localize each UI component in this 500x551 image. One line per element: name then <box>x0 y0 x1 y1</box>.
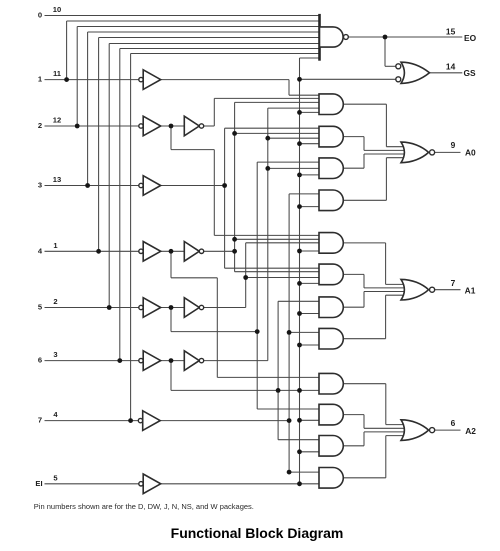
wire 6L into AND A0-3 <box>268 167 321 169</box>
wire A2-2 jog <box>363 415 365 429</box>
svg-text:GS: GS <box>463 68 476 78</box>
wire EI enable into AND A1-3 <box>300 313 321 315</box>
wire EI enable into AND A1-2 <box>300 282 321 284</box>
nor-gate U-A1 body <box>401 279 429 300</box>
wire 3H into AND A0-2 <box>225 127 321 129</box>
svg-text:Functional Block Diagram: Functional Block Diagram <box>171 525 344 541</box>
wire 5L into AND A1-1 <box>246 242 321 244</box>
wire row 6 interstage <box>161 360 184 362</box>
wire 6H into AND A1-3 <box>278 300 320 302</box>
and-gate A2-1 <box>319 373 343 394</box>
node junction EI lane to AND A1-4 <box>297 343 302 348</box>
and-gate A1-1 <box>319 233 343 254</box>
wire A1-3 output run <box>344 306 364 308</box>
node junction EI lane to AND A0-3 <box>297 173 302 178</box>
wire A0-4 output run <box>344 199 387 201</box>
wire input 1 top run to NAND <box>67 20 320 22</box>
nand-gate U-EO input bar <box>318 14 321 61</box>
wire 7H into AND A1-4 <box>289 331 320 333</box>
svg-text:14: 14 <box>446 61 456 71</box>
inverter U6b <box>184 351 199 371</box>
svg-text:7: 7 <box>451 278 456 288</box>
inverter U4b output bubble <box>199 249 203 253</box>
wire EO branch into GS gate <box>385 65 396 67</box>
wire EI enable into AND A0-4 <box>300 206 321 208</box>
wire input 1 riser to NAND <box>66 21 68 80</box>
node junction 6L to A0-3 <box>265 166 270 171</box>
wire EO branch drop to GS <box>384 37 386 66</box>
svg-text:2: 2 <box>38 121 42 130</box>
wire A2-1 output run <box>344 383 386 385</box>
wire input 5 top run to NAND <box>109 43 319 45</box>
node junction input 5 riser <box>107 305 112 310</box>
svg-text:EO: EO <box>464 33 477 43</box>
wire EI enable into GS gate <box>300 78 396 80</box>
wire 4H lane drop <box>216 278 218 378</box>
svg-text:EI: EI <box>35 479 42 488</box>
node junction EI lane to AND A1-3 <box>297 311 302 316</box>
wire A2-3 jog <box>363 432 365 446</box>
wire 7H into AND A0-4 <box>289 193 320 195</box>
wire 5H into AND A0-3 <box>257 161 320 163</box>
and-gate A1-2 <box>319 264 343 285</box>
node junction EI lane to AND A1-1 <box>297 249 302 254</box>
wire input 6 line <box>45 360 139 362</box>
buffer U1a input bubble <box>139 77 143 81</box>
wire EI-enable line into NAND pin 9 <box>300 57 320 59</box>
buffer U3a input bubble <box>139 183 143 187</box>
node junction EI lane base <box>297 481 302 486</box>
node junction EO branch <box>383 35 388 40</box>
wire 5L into AND A1-2 <box>246 277 321 279</box>
buffer U3a <box>143 176 161 196</box>
node junction 4L to A1-1 <box>232 237 237 242</box>
wire row 4 interstage <box>161 250 184 252</box>
and-gate A1-3 <box>319 297 343 318</box>
buffer U7a <box>143 411 161 431</box>
wire A2-4 jog <box>385 436 387 478</box>
buffer UEIa input bubble <box>139 482 143 486</box>
wire 6H drop <box>170 361 172 391</box>
wire 2H drop <box>170 126 172 150</box>
svg-text:3: 3 <box>53 350 57 359</box>
wire input 7 line <box>45 420 139 422</box>
wire 5H drop <box>170 308 172 332</box>
svg-text:12: 12 <box>53 116 61 125</box>
wire 6L lane <box>267 108 269 361</box>
wire 3H lane <box>224 128 226 268</box>
node junction 7H to A1-4 <box>287 330 292 335</box>
wire 3H into AND A1-2 <box>225 267 321 269</box>
wire input 7 top run to NAND <box>131 53 320 55</box>
node junction EI lane to AND A1-2 <box>297 281 302 286</box>
node junction input 6 riser <box>117 358 122 363</box>
wire 2L output run <box>204 125 215 127</box>
svg-text:3: 3 <box>38 181 42 190</box>
wire A2-2 output run <box>344 414 364 416</box>
wire input 2 riser to NAND <box>76 27 78 127</box>
wire A0-3 jog <box>363 154 365 168</box>
wire A1-2 into NOR <box>364 287 406 289</box>
wire EI enable into AND A0-3 <box>300 174 321 176</box>
svg-text:Pin numbers shown are for the: Pin numbers shown are for the D, DW, J, … <box>34 502 254 511</box>
wire A2 output <box>435 429 461 431</box>
wire input 3 top run to NAND <box>88 31 320 33</box>
wire input 2 line <box>45 125 139 127</box>
node junction row 2 interstage tap <box>169 124 174 129</box>
node junction input 7 riser <box>128 418 133 423</box>
node junction row 5 interstage tap <box>169 305 174 310</box>
node junction 3H tee <box>222 183 227 188</box>
node junction 5H tee <box>255 329 260 334</box>
wire 1H into AND A0-1 <box>289 94 321 96</box>
nor-gate U-A2 output bubble <box>430 428 435 433</box>
wire A2-3 into NOR <box>364 431 406 433</box>
svg-text:15: 15 <box>446 26 456 36</box>
wire A0-1 output run <box>344 103 387 105</box>
buffer U6a input bubble <box>139 358 143 362</box>
wire input 0 line <box>45 15 320 17</box>
wire EI enable lane <box>299 58 301 484</box>
wire A0 output <box>435 151 461 153</box>
node junction 7H tee <box>287 418 292 423</box>
wire row 2 interstage <box>161 125 184 127</box>
wire A1-1 output run <box>344 242 386 244</box>
wire 6H jog into AND A2-1 <box>171 389 321 391</box>
wire EI enable into AND A1-4 <box>300 344 321 346</box>
wire 5L output run <box>204 307 246 309</box>
svg-text:11: 11 <box>53 69 62 78</box>
wire A0-1 jog <box>385 104 387 147</box>
inverter U4b <box>184 242 199 262</box>
svg-text:0: 0 <box>38 11 42 20</box>
wire 6L into AND A0-1 <box>268 107 321 109</box>
wire A0-4 into NOR <box>386 157 405 159</box>
wire A1-3 jog <box>363 292 365 308</box>
node junction 5L to A1-2 <box>243 275 248 280</box>
wire EI enable into AND A0-1 <box>300 111 321 113</box>
and-gate A0-3 <box>319 158 343 179</box>
nand-gate U-EO body <box>320 27 344 47</box>
or-gate U-GS input bubble bottom <box>396 77 401 82</box>
buffer U4a <box>143 242 161 262</box>
wire 4H jog <box>171 277 217 279</box>
inverter U5b <box>184 298 199 318</box>
svg-text:9: 9 <box>451 140 456 150</box>
node junction 6L to A0-2 <box>265 136 270 141</box>
node junction EI lane to AND A0-4 <box>297 204 302 209</box>
wire A0-4 jog <box>385 158 387 201</box>
node junction EI lane to AND A2-3 <box>297 449 302 454</box>
node junction input 2 riser <box>75 124 80 129</box>
wire input EI line <box>45 483 139 485</box>
inverter U5b output bubble <box>199 305 203 309</box>
inverter U6b output bubble <box>199 358 203 362</box>
or-gate U-GS input bubble top <box>396 64 401 69</box>
wire 4H drop <box>170 251 172 277</box>
wire 7H buffer output run <box>160 420 289 422</box>
inverter U2b output bubble <box>199 124 203 128</box>
wire input 1 line <box>45 79 139 81</box>
node junction input 4 riser <box>96 249 101 254</box>
node junction input 1 riser <box>64 77 69 82</box>
svg-text:6: 6 <box>451 418 456 428</box>
wire GS output <box>430 72 463 74</box>
wire 2L rise <box>213 98 215 126</box>
wire 6L into AND A0-2 <box>268 137 321 139</box>
nor-gate U-A2 body <box>401 420 429 441</box>
wire A0-2 jog <box>363 137 365 151</box>
and-gate A0-1 <box>319 94 343 115</box>
wire EI enable into AND A1-1 <box>300 250 321 252</box>
svg-text:13: 13 <box>53 175 61 184</box>
wire 5H into AND A2-2 <box>257 408 320 410</box>
wire input 3 riser to NAND <box>87 32 89 186</box>
and-gate A2-4 <box>319 468 343 489</box>
wire A0-2 output run <box>344 136 364 138</box>
wire A0-3 output run <box>344 167 364 169</box>
svg-text:A1: A1 <box>465 286 476 296</box>
wire input 5 line <box>45 307 139 309</box>
wire 4L into AND A0-2 <box>235 132 321 134</box>
wire A1-1 into NOR <box>386 283 406 285</box>
wire 1H buffer output run <box>161 79 289 81</box>
and-gate A0-4 <box>319 190 343 211</box>
wire A0-3 into NOR <box>364 153 406 155</box>
wire 2H into AND A1-1 <box>214 234 320 236</box>
wire A2-1 into NOR <box>386 424 406 426</box>
wire 1H drop <box>288 80 290 96</box>
svg-text:A2: A2 <box>465 426 476 436</box>
wire input 6 riser to NAND <box>119 49 121 361</box>
buffer U5a <box>143 298 161 318</box>
node junction 6H tee <box>276 388 281 393</box>
node junction EI lane to AND A2-1 <box>297 388 302 393</box>
wire 5L lane <box>245 243 247 308</box>
wire 4L output run <box>204 250 235 252</box>
wire A1-2 jog <box>363 274 365 288</box>
wire A1-1 jog <box>385 243 387 285</box>
node junction input 3 riser <box>85 183 90 188</box>
wire 4H into AND A2-1 <box>217 376 320 378</box>
wire 4L lane <box>234 102 236 271</box>
wire 4L into AND A1-1 <box>235 238 321 240</box>
wire EO output <box>348 36 462 38</box>
wire input 4 line <box>45 250 139 252</box>
and-gate A2-3 <box>319 436 343 457</box>
wire 4L into AND A0-1 <box>235 101 321 103</box>
wire input 7 riser to NAND <box>130 54 132 421</box>
wire input 4 riser to NAND <box>98 38 100 252</box>
wire A2-3 output run <box>344 445 364 447</box>
nor-gate U-A0 output bubble <box>430 150 435 155</box>
wire EI buffer output run into AND A2-4 <box>161 483 321 485</box>
wire A1-4 into NOR <box>386 294 406 296</box>
and-gate A0-2 <box>319 126 343 147</box>
wire 6H into AND A2-3 <box>278 439 320 441</box>
node junction EI lane to AND A0-2 <box>297 141 302 146</box>
svg-text:2: 2 <box>53 297 57 306</box>
buffer U2a <box>143 116 161 136</box>
buffer U7a input bubble <box>138 418 142 422</box>
node junction 7H to A2-4 <box>287 470 292 475</box>
wire A0-1 into NOR <box>386 146 405 148</box>
wire A1-4 output run <box>344 338 386 340</box>
wire 2L into AND A0-1 <box>214 97 320 99</box>
buffer UEIa <box>143 474 161 494</box>
nor-gate U-A0 body <box>401 142 429 163</box>
wire input 3 line <box>45 185 139 187</box>
node junction 4L tee <box>232 249 237 254</box>
node junction EI lane to AND A2-2 <box>297 418 302 423</box>
wire row 5 interstage <box>161 307 184 309</box>
svg-text:A0: A0 <box>465 148 476 158</box>
wire 6L output run <box>204 360 268 362</box>
buffer U5a input bubble <box>139 305 143 309</box>
node junction EI lane to GS gate <box>297 77 302 82</box>
svg-text:10: 10 <box>53 5 61 14</box>
buffer U2a input bubble <box>139 124 143 128</box>
buffer U1a <box>143 70 161 90</box>
or-gate U-GS body <box>401 62 430 83</box>
wire A1-3 into NOR <box>364 291 406 293</box>
wire 7H lane <box>288 194 290 472</box>
svg-text:7: 7 <box>38 416 42 425</box>
buffer U4a input bubble <box>139 249 143 253</box>
wire EI enable into AND A0-2 <box>300 143 321 145</box>
wire 3H buffer output run <box>161 185 225 187</box>
wire EI enable into AND A2-3 <box>300 451 321 453</box>
wire 7H into AND A2-4 <box>289 471 320 473</box>
wire input 2 top run to NAND <box>77 26 319 28</box>
inverter U2b <box>184 116 199 136</box>
wire input 4 top run to NAND <box>99 37 320 39</box>
wire 5H jog <box>171 331 257 333</box>
and-gate A1-4 <box>319 328 343 349</box>
wire A1 output <box>435 289 461 291</box>
node junction row 6 interstage tap <box>169 358 174 363</box>
wire 2H lane drop <box>213 150 215 236</box>
node junction row 4 interstage tap <box>169 249 174 254</box>
wire 6H lane <box>277 301 279 439</box>
wire input 5 riser to NAND <box>108 44 110 308</box>
wire EI enable into AND A2-2 <box>300 419 321 421</box>
nor-gate U-A1 output bubble <box>430 287 435 292</box>
wire 5H lane <box>256 162 258 409</box>
wire A1-4 jog <box>385 295 387 339</box>
nand-gate U-EO output bubble <box>344 35 349 40</box>
buffer U6a <box>143 351 161 371</box>
node junction EI lane to AND A0-1 <box>297 110 302 115</box>
wire A2-4 into NOR <box>386 435 406 437</box>
wire input 6 top run to NAND <box>120 48 320 50</box>
wire A0-2 into NOR <box>364 149 406 151</box>
wire 4L into AND A1-2 <box>235 271 321 273</box>
wire A1-2 output run <box>344 273 364 275</box>
wire 2H jog <box>171 149 214 151</box>
node junction 4L to A0-2 <box>232 131 237 136</box>
and-gate A2-2 <box>319 404 343 425</box>
wire A2-2 into NOR <box>364 427 406 429</box>
svg-text:6: 6 <box>38 356 42 365</box>
wire A2-4 output run <box>344 477 386 479</box>
wire A2-1 jog <box>385 384 387 425</box>
